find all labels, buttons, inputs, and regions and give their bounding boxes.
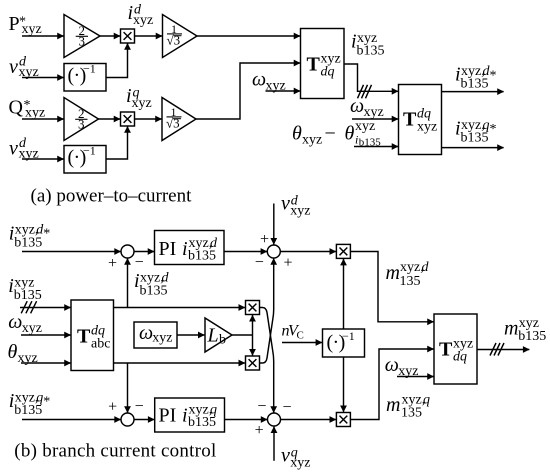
svg-text:v: v xyxy=(9,56,18,78)
node i^q_xyz label xyxy=(126,85,152,111)
svg-text:−: − xyxy=(257,398,266,415)
svg-text:xyz: xyz xyxy=(290,203,310,218)
svg-text:xyz,: xyz, xyxy=(400,260,424,275)
wire T2 output q xyxy=(442,147,504,149)
svg-text:b135: b135 xyxy=(188,249,216,264)
node m^xyz,q_135 label xyxy=(386,393,430,421)
svg-text:T: T xyxy=(403,109,417,131)
svg-text:m: m xyxy=(386,262,400,284)
inverse block U2 (.)^-1 xyxy=(64,144,106,173)
wire X1 to gain 1/sqrt3 xyxy=(135,35,163,37)
wire v^d down into S2 xyxy=(273,204,275,245)
wire d* reference into sum S1 xyxy=(22,251,121,253)
value label 2/3 row2 xyxy=(75,106,87,132)
wire i_b135 into T3 xyxy=(20,307,71,309)
svg-text:(a) power–to–current: (a) power–to–current xyxy=(31,186,193,207)
gain Lb triangle xyxy=(205,318,232,352)
svg-text:−: − xyxy=(325,123,336,145)
svg-text:C: C xyxy=(297,330,304,342)
node theta difference label xyxy=(292,119,381,148)
svg-text:−: − xyxy=(135,254,144,271)
svg-text:3: 3 xyxy=(78,116,85,131)
svg-text:m: m xyxy=(504,318,518,340)
node i^xyz,d_b135 label (feedback) xyxy=(134,270,170,299)
wire omega into T3 xyxy=(21,334,71,336)
block omega_xyz xyxy=(134,322,177,348)
svg-text:T: T xyxy=(439,339,453,361)
svg-text:PI: PI xyxy=(159,238,177,260)
svg-text:L: L xyxy=(207,325,219,347)
multiplier X1 xyxy=(121,29,135,43)
multiplier X3 xyxy=(336,244,350,258)
svg-text:−: − xyxy=(255,254,264,271)
svg-text:−1: −1 xyxy=(342,329,355,343)
node omega_xyz label (into T2) xyxy=(350,95,384,120)
summing junction S4 xyxy=(268,413,281,426)
wire K4 up to block T1 input2 xyxy=(196,63,300,119)
svg-text:abc: abc xyxy=(91,337,110,352)
svg-text:xyz: xyz xyxy=(152,330,172,345)
svg-text:ω: ω xyxy=(139,322,153,344)
block T2 Txyz^dq xyxy=(399,85,442,155)
wire v to inverse block row2 xyxy=(22,158,64,160)
svg-text:−1: −1 xyxy=(83,62,96,76)
node i^xyz,d*_b135 output label xyxy=(455,64,497,92)
inverse block U3 (.)^-1 xyxy=(323,329,365,357)
svg-text:+: + xyxy=(255,422,264,439)
gain K2 (1/sqrt3) triangle xyxy=(163,15,198,58)
svg-text:ω: ω xyxy=(252,69,266,91)
wire Q to gain 2/3 row2 xyxy=(22,118,64,120)
svg-text:xyz: xyz xyxy=(302,133,322,148)
svg-text:xyz: xyz xyxy=(18,351,38,366)
svg-text:xyz: xyz xyxy=(25,106,45,121)
node i^xyz,q*_b135 output label xyxy=(455,118,497,146)
svg-text:*: * xyxy=(490,69,497,84)
svg-text:√3: √3 xyxy=(166,116,180,131)
node v^d_xyz label (row1) xyxy=(9,55,39,81)
wire Lb output split xyxy=(232,334,253,336)
svg-text:θ: θ xyxy=(8,341,18,363)
value label Lb xyxy=(207,325,227,348)
wire X5 crossing down to S4 xyxy=(260,308,274,413)
wire PI2 to sum S4 xyxy=(225,419,268,421)
inverse block U1 (.)^-1 xyxy=(64,62,106,91)
node omega_xyz label (into T4) xyxy=(385,354,419,379)
value label 1/sqrt3 row2 xyxy=(166,105,182,131)
svg-text:xyz: xyz xyxy=(22,321,42,336)
wire S4 to multiplier X4 xyxy=(281,419,336,421)
bus hash marks (b input) xyxy=(21,301,36,313)
svg-text:*: * xyxy=(43,227,50,242)
svg-text:135: 135 xyxy=(400,274,421,289)
node omega_xyz label (b left) xyxy=(8,311,42,336)
bus hash marks (b output) xyxy=(490,343,504,356)
wire inverse up into X3 xyxy=(343,259,345,329)
value label 1/sqrt3 xyxy=(167,22,183,48)
multiplier X2 xyxy=(121,112,135,126)
svg-text:ω: ω xyxy=(350,95,364,117)
node theta_xyz label xyxy=(8,341,38,366)
multiplier X5 xyxy=(246,301,260,315)
svg-text:T: T xyxy=(307,54,321,76)
wire omega to T2 xyxy=(352,118,398,120)
svg-text:b135: b135 xyxy=(14,236,42,251)
wire T3 d output to X5 xyxy=(114,307,245,309)
svg-text:dq: dq xyxy=(321,65,335,80)
svg-text:+: + xyxy=(283,255,292,272)
svg-text:+: + xyxy=(108,398,117,415)
svg-text:PI: PI xyxy=(159,405,177,427)
wire Lb up into X5 xyxy=(252,315,254,335)
wire Lb down into X6 xyxy=(252,335,254,355)
wire T1 output down to T2 xyxy=(344,64,398,91)
wire X2 to gain 1/sqrt3 row2 xyxy=(135,118,162,120)
node P*xyz label xyxy=(9,13,42,37)
wire S2 to multiplier X3 xyxy=(280,251,336,253)
wire X3 to block T4 input1 xyxy=(350,252,433,322)
node omega_xyz label (into T1) xyxy=(252,69,286,94)
svg-text:b135: b135 xyxy=(461,77,489,92)
svg-text:θ: θ xyxy=(345,123,355,145)
svg-text:v: v xyxy=(9,138,18,160)
wire inverse to X2 bottom xyxy=(106,126,128,159)
svg-text:v: v xyxy=(281,193,290,215)
node Q*xyz label xyxy=(9,97,46,121)
wire nV_C into inverse block xyxy=(282,342,322,344)
node v^d_xyz label (top) xyxy=(281,193,310,219)
svg-text:−: − xyxy=(135,398,144,415)
svg-text:+: + xyxy=(260,231,269,248)
svg-text:i: i xyxy=(182,405,188,427)
wire inverse to X1 bottom xyxy=(106,43,128,77)
wire T2 output d xyxy=(442,91,504,93)
svg-text:b135: b135 xyxy=(14,288,42,303)
svg-text:(b) branch current control: (b) branch current control xyxy=(14,441,216,462)
summing junction S3 xyxy=(121,413,134,426)
node i^xyz,q*_b135 input label xyxy=(9,390,51,418)
node i^d_xyz label xyxy=(128,2,154,28)
svg-text:dq: dq xyxy=(453,350,467,365)
wire S1 to PI1 xyxy=(134,251,154,253)
gain K4 (1/sqrt3) triangle row2 xyxy=(162,98,196,141)
wire omega block to gain Lb xyxy=(177,334,204,336)
svg-text:xyz: xyz xyxy=(364,105,384,120)
gain K3 (2/3) triangle row2 xyxy=(64,98,99,141)
summing junction S2 xyxy=(267,245,280,258)
wire T4 output m_b135 xyxy=(477,349,529,351)
svg-text:b135: b135 xyxy=(188,415,216,430)
bus hash marks (a) xyxy=(358,85,372,99)
svg-text:−1: −1 xyxy=(83,144,96,158)
svg-text:Q: Q xyxy=(9,97,24,119)
multiplier X4 xyxy=(336,413,350,427)
svg-text:xyz: xyz xyxy=(132,96,152,111)
node i^xyz_b135 label (a) xyxy=(351,31,385,59)
svg-text:d: d xyxy=(422,260,430,275)
summing junction S1 xyxy=(121,245,134,258)
node v^q_xyz label (bottom) xyxy=(281,445,310,471)
svg-text:b135: b135 xyxy=(518,329,546,344)
svg-text:ω: ω xyxy=(8,311,22,333)
wire X6 crossing up to S2 xyxy=(260,258,274,363)
block PI2 xyxy=(155,398,225,432)
svg-text:xyz: xyz xyxy=(22,22,42,37)
svg-text:−: − xyxy=(282,399,291,416)
svg-text:xyz: xyz xyxy=(290,455,310,470)
wire gain to multiplier X1 xyxy=(100,35,120,37)
node m^xyz_b135 output label xyxy=(504,316,546,344)
wire X4 to block T4 input2 xyxy=(350,349,433,420)
svg-text:i: i xyxy=(182,238,188,260)
svg-text:ω: ω xyxy=(385,354,399,376)
svg-text:*: * xyxy=(490,122,497,137)
svg-text:T: T xyxy=(77,326,91,348)
svg-text:m: m xyxy=(386,394,400,416)
svg-text:v: v xyxy=(281,445,290,467)
wire inverse down into X4 xyxy=(343,357,345,412)
wire omega to T1 xyxy=(266,90,301,92)
node i^xyz,d*_b135 input label xyxy=(9,223,51,251)
svg-text:q: q xyxy=(423,393,430,408)
node m^xyz,d_135 label xyxy=(386,260,430,289)
svg-text:b135: b135 xyxy=(14,403,42,418)
wire v to inverse block xyxy=(22,77,64,79)
svg-text:b135: b135 xyxy=(140,284,168,299)
wire theta to T2 xyxy=(354,146,398,148)
svg-text:√3: √3 xyxy=(167,33,181,48)
block T3 Tabc^dq xyxy=(71,300,114,371)
wire branch down to S3 xyxy=(127,363,129,413)
svg-text:xyz: xyz xyxy=(133,13,153,28)
wire theta into T3 xyxy=(21,362,71,364)
wire S3 to PI2 xyxy=(134,419,154,421)
wire branch up to S1 xyxy=(127,258,129,307)
block T1 Tdq^xyz xyxy=(301,29,345,99)
wire T3 q output to X6 xyxy=(114,362,245,364)
wire gain to multiplier X2 xyxy=(99,118,121,120)
value label 2/3 xyxy=(76,23,88,49)
block PI1 xyxy=(155,231,225,265)
wire K2 to block T1 xyxy=(197,35,300,37)
svg-text:3: 3 xyxy=(78,33,85,48)
svg-text:b135: b135 xyxy=(357,44,385,59)
node i^xyz_b135 input label (b) xyxy=(8,275,42,303)
svg-text:θ: θ xyxy=(292,123,302,145)
svg-text:b135: b135 xyxy=(461,131,489,146)
svg-text:+: + xyxy=(108,255,117,272)
node v^d_xyz label (row2) xyxy=(9,136,39,162)
wire omega into T4 xyxy=(397,376,434,378)
svg-text:*: * xyxy=(43,395,50,410)
svg-text:135: 135 xyxy=(401,406,422,421)
svg-text:P: P xyxy=(9,13,20,35)
wire q* reference into sum S3 xyxy=(22,419,121,421)
wire PI1 to sum S2 xyxy=(224,251,267,253)
svg-text:b: b xyxy=(219,333,226,348)
svg-text:xyz: xyz xyxy=(417,120,437,135)
multiplier X6 xyxy=(246,356,260,370)
block T4 Tdq^xyz xyxy=(434,314,477,384)
wire v^q up into S4 xyxy=(273,427,275,461)
gain K1 (2/3) triangle xyxy=(64,15,100,58)
node nV_C label xyxy=(282,322,304,341)
wire P to gain 2/3 xyxy=(22,35,64,37)
